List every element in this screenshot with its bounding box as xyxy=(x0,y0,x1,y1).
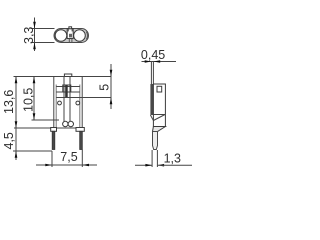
top view center tab xyxy=(69,27,72,29)
dim 7,5 line xyxy=(36,164,97,166)
dim 0,45 line xyxy=(142,61,177,63)
top view rim hatch left xyxy=(55,32,56,40)
top view block corner mark left xyxy=(67,29,69,31)
dim 1,3 arrow left-side xyxy=(145,164,152,167)
front view bottom line + 13,6 ext xyxy=(14,127,83,129)
svg-text:10,5: 10,5 xyxy=(22,88,36,112)
front view interior line 1 xyxy=(56,86,80,88)
top view left hole xyxy=(55,30,67,42)
top view center block xyxy=(67,29,73,39)
front view screw tab xyxy=(64,74,71,77)
dim 1,3 ext right xyxy=(156,150,158,167)
front view interior line 3 + 5 ext xyxy=(56,97,111,99)
front view left wall inner xyxy=(55,85,57,129)
dim 5 arrow up-outside xyxy=(110,98,113,105)
dim 1,3 line right leader xyxy=(157,164,192,166)
front view channel left xyxy=(63,77,65,122)
top view block corner mark right xyxy=(72,29,74,31)
svg-text:3,3: 3,3 xyxy=(22,27,36,44)
side view lower diagonal xyxy=(153,115,165,121)
dim 7,5 arrow right-outside xyxy=(82,164,89,167)
front view bottom circle left xyxy=(63,121,68,126)
top view right hole xyxy=(74,30,86,42)
front view left wall xyxy=(53,77,55,129)
dim 3,3 arrow down xyxy=(33,22,36,29)
side view pin xyxy=(153,132,158,150)
dim 10,5 arrow up xyxy=(33,77,36,84)
dim 3,3 line xyxy=(34,18,36,52)
front view left foot xyxy=(51,128,57,132)
front view screw slot xyxy=(65,85,68,98)
front view right wall xyxy=(81,77,83,129)
svg-text:0,45: 0,45 xyxy=(141,48,165,62)
dim 7,5 ext right xyxy=(81,150,83,168)
front view right foot xyxy=(76,128,84,132)
svg-text:13,6: 13,6 xyxy=(2,90,16,114)
front view bottom circle right xyxy=(68,121,73,126)
front view channel right xyxy=(69,77,71,122)
dim 10,5 arrow down xyxy=(33,113,36,120)
side view internal box xyxy=(157,86,162,92)
dim 3,3 arrow up xyxy=(33,43,36,50)
front view right wall inner xyxy=(79,85,81,129)
dim 5 arrow down-outside xyxy=(110,70,113,77)
dim 5 line xyxy=(110,64,112,109)
dim 1,3 line left leader xyxy=(135,164,152,166)
front view top line / ext xyxy=(14,76,112,78)
side view internal line xyxy=(153,114,165,116)
dim 1,3 arrow right-side xyxy=(157,164,164,167)
svg-text:7,5: 7,5 xyxy=(60,150,77,164)
dim 4,5 arrow up from below xyxy=(15,151,18,158)
front view right leg xyxy=(80,131,83,149)
front view side hole left xyxy=(58,101,62,105)
dim 0,45 arrow left xyxy=(154,60,161,63)
top view stadium body xyxy=(54,29,89,43)
side view body xyxy=(153,84,165,127)
svg-text:5: 5 xyxy=(98,84,112,91)
front view side hole right xyxy=(76,101,80,105)
svg-text:1,3: 1,3 xyxy=(164,152,181,166)
top view lower channel lines xyxy=(68,39,70,43)
dim 13,6 / 4,5 line xyxy=(15,77,17,161)
dim 7,5 ext left xyxy=(51,151,53,167)
dim 13,6 arrow down xyxy=(15,121,18,128)
dim 3,3 ext top xyxy=(31,28,55,30)
side view metal tab xyxy=(150,62,152,85)
svg-text:4,5: 4,5 xyxy=(2,132,16,149)
dim 1,3 ext left xyxy=(151,150,153,167)
side view metal bar xyxy=(150,84,153,115)
dim 7,5 arrow left-outside xyxy=(45,164,52,167)
dim 10,5 ext bottom xyxy=(32,119,60,121)
front view interior line 2 xyxy=(56,91,80,93)
top view center slot xyxy=(69,34,72,38)
side view taper small xyxy=(150,115,153,121)
dim 10,5 line xyxy=(33,77,35,121)
dim 13,6 arrow up xyxy=(15,77,18,84)
dim 0,45 arrow right xyxy=(145,60,152,63)
front view screw box xyxy=(63,85,71,92)
side view bottom taper xyxy=(153,127,166,132)
dim 3,3 ext bottom xyxy=(31,42,55,44)
dim 4,5 ext bottom / legs bottom line xyxy=(13,150,52,152)
front view left leg xyxy=(52,131,55,149)
top view rim hatch right xyxy=(86,32,87,40)
